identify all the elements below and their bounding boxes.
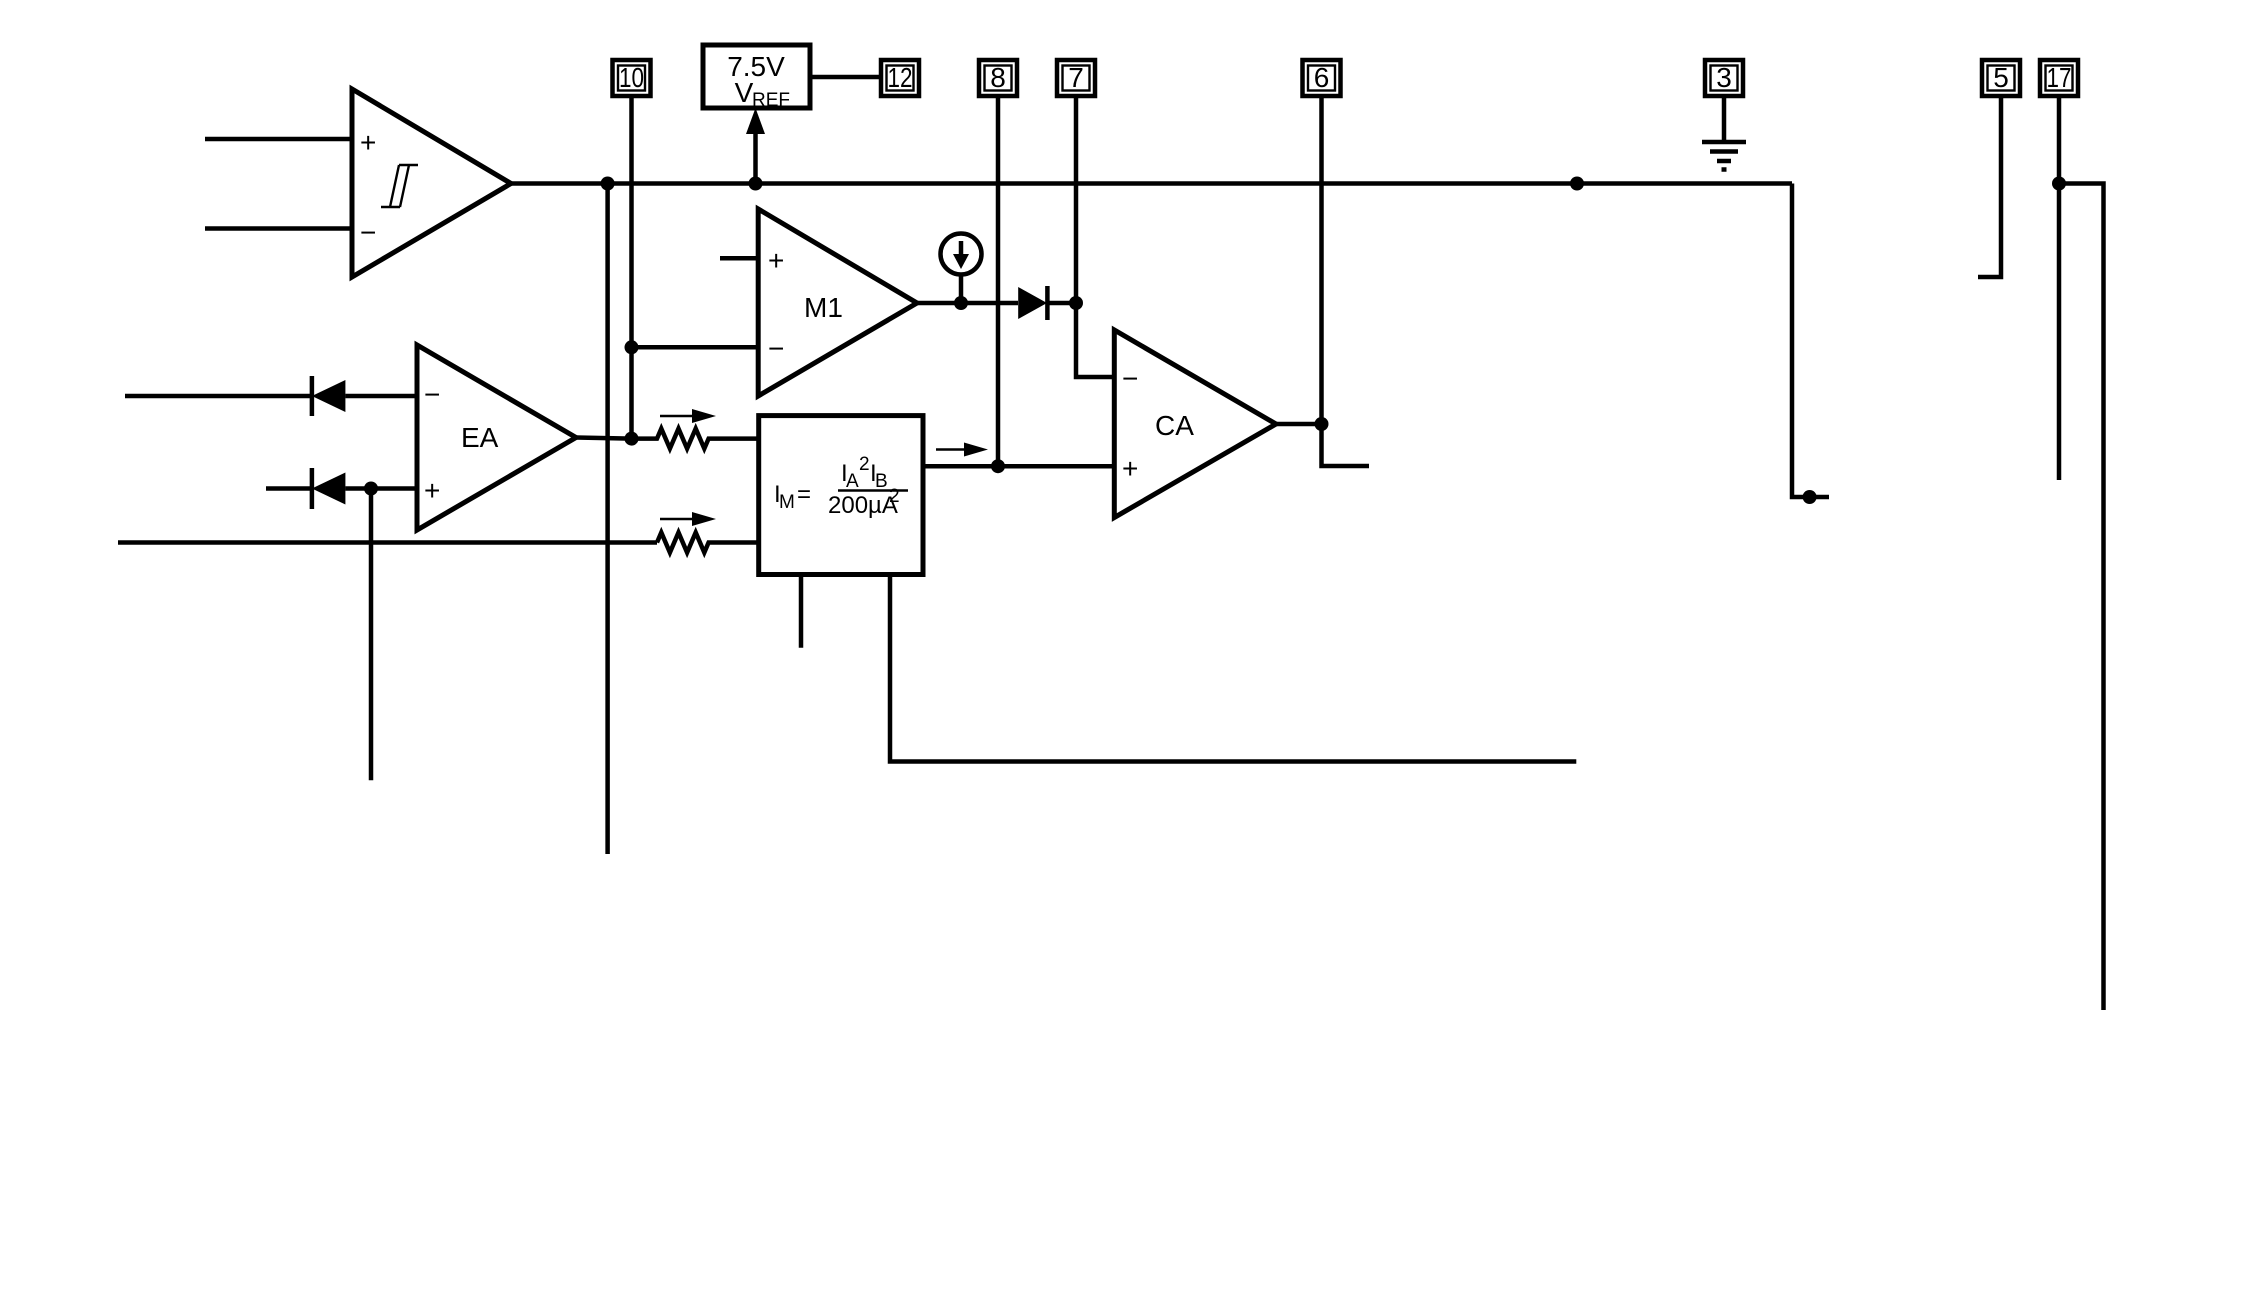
node CA output to pin 6 — [1315, 417, 1329, 431]
wire IM output to CA plus — [923, 464, 1114, 469]
wire GND1 pin to ground — [1722, 96, 1727, 142]
wire multiplier down to RSET line — [890, 575, 1576, 762]
node M1 output to 7uA source — [954, 296, 968, 310]
pin 7 ISENSE — [1057, 60, 1095, 96]
error amp EA — [417, 345, 576, 530]
svg-text:6: 6 — [1314, 62, 1330, 93]
wire VCC input to UVLO comparator — [205, 137, 352, 142]
svg-text:+: + — [768, 245, 784, 276]
svg-text:2: 2 — [859, 454, 870, 475]
block 7.5V VREF regulator — [703, 45, 810, 111]
wire 16V TO 10V input to UVLO comparator — [205, 226, 352, 231]
node VAOUT to M1 minus — [625, 340, 639, 354]
svg-text:10: 10 — [619, 62, 644, 93]
current arrow IA — [660, 409, 716, 423]
node diode to ISENSE line — [1069, 296, 1083, 310]
wire VCC across and down to GTDR2 collector — [2059, 184, 2104, 1011]
wire 7.5V clamp down to SS1 diode — [369, 489, 374, 781]
node bus to OSC RUN — [1570, 177, 1584, 191]
svg-text:=: = — [797, 481, 811, 508]
wire VAOUT pin down to EA output — [629, 96, 634, 439]
pin 5 PKLIM — [1982, 60, 2020, 96]
wire 2.2V to M1 plus — [720, 256, 758, 261]
svg-text:5: 5 — [1993, 62, 2009, 93]
svg-text:−: − — [768, 333, 784, 364]
pin 10 VAOUT — [613, 60, 651, 96]
multiplier M1 — [758, 209, 917, 396]
svg-text:+: + — [1122, 453, 1138, 484]
wire RUN arrow from bus up to VREF block — [753, 130, 758, 184]
pin 3 GND1 — [1705, 60, 1743, 96]
wire M1 output to diode — [917, 301, 1018, 306]
svg-text:−: − — [360, 217, 376, 248]
node IM to MOUT pin — [991, 459, 1005, 473]
pin 6 CAOUT — [1303, 60, 1341, 96]
current arrow IM — [936, 443, 988, 457]
svg-text:M: M — [779, 492, 795, 513]
comparator U1 UVLO with hysteresis — [352, 89, 511, 277]
ground GND1 — [1702, 142, 1746, 170]
resistor IA — [632, 429, 759, 449]
svg-text:V: V — [735, 77, 754, 108]
wire CA output to PFC comparator minus — [1276, 424, 1369, 466]
diode D2 VSENSE to EA — [125, 376, 417, 416]
current source 7uA — [941, 234, 982, 304]
wire VREF block to pin 12 — [810, 75, 881, 80]
wire M1 minus from VAOUT line — [632, 345, 759, 350]
wire PKLIM pin down to PK comparator minus — [1978, 96, 2001, 277]
wire CAOUT pin down to CA output — [1319, 96, 1324, 424]
diode D1 M1 output — [1018, 286, 1076, 320]
svg-text:200µA: 200µA — [828, 492, 898, 519]
node VCC branch — [2052, 177, 2066, 191]
svg-text:12: 12 — [888, 62, 913, 93]
svg-text:−: − — [424, 379, 440, 410]
diode D3 7.5V clamp to EA plus — [266, 468, 417, 509]
wire MOUT pin down to IM line — [996, 96, 1001, 466]
svg-text:EA: EA — [461, 422, 499, 453]
svg-text:+: + — [424, 475, 440, 506]
wire main RUN bus from UVLO output — [511, 181, 1792, 186]
block multiplier IM — [759, 416, 923, 575]
wire multiplier to OVP comparator output — [799, 575, 804, 648]
current arrow IB — [660, 512, 716, 526]
svg-text:M1: M1 — [804, 292, 843, 323]
pin 8 MOUT — [979, 60, 1017, 96]
wire comparator output down to inverters — [605, 184, 610, 855]
svg-text:+: + — [360, 127, 376, 158]
node NAND1 input1 branch — [1803, 490, 1817, 504]
node bus to inverter line — [601, 177, 615, 191]
pin 17 VCC — [2040, 60, 2078, 96]
svg-text:2: 2 — [889, 486, 900, 507]
wire IAC from pin 9 — [118, 540, 657, 545]
svg-text:REF: REF — [752, 90, 790, 111]
svg-text:CA: CA — [1155, 410, 1194, 441]
node VAOUT to EA output and IA resistor — [625, 432, 639, 446]
svg-text:8: 8 — [990, 62, 1006, 93]
wire VCC pin down to GTDR1 collector — [2057, 96, 2062, 480]
svg-text:B: B — [875, 471, 888, 492]
svg-text:3: 3 — [1716, 62, 1732, 93]
svg-text:7: 7 — [1068, 62, 1084, 93]
resistor IB — [657, 533, 759, 553]
pin 12 VREF — [881, 60, 919, 96]
wire bus down to NAND1 input1 — [1792, 184, 1829, 498]
node 7.5V clamp junction — [364, 482, 378, 496]
wire ISENSE pin down to CA minus input — [1076, 96, 1114, 377]
wire EA output to multiplier — [576, 438, 632, 439]
node bus to VREF RUN — [749, 177, 763, 191]
current amp CA — [1114, 330, 1276, 518]
svg-text:A: A — [846, 471, 859, 492]
svg-text:−: − — [1122, 363, 1138, 394]
svg-text:17: 17 — [2047, 62, 2072, 93]
